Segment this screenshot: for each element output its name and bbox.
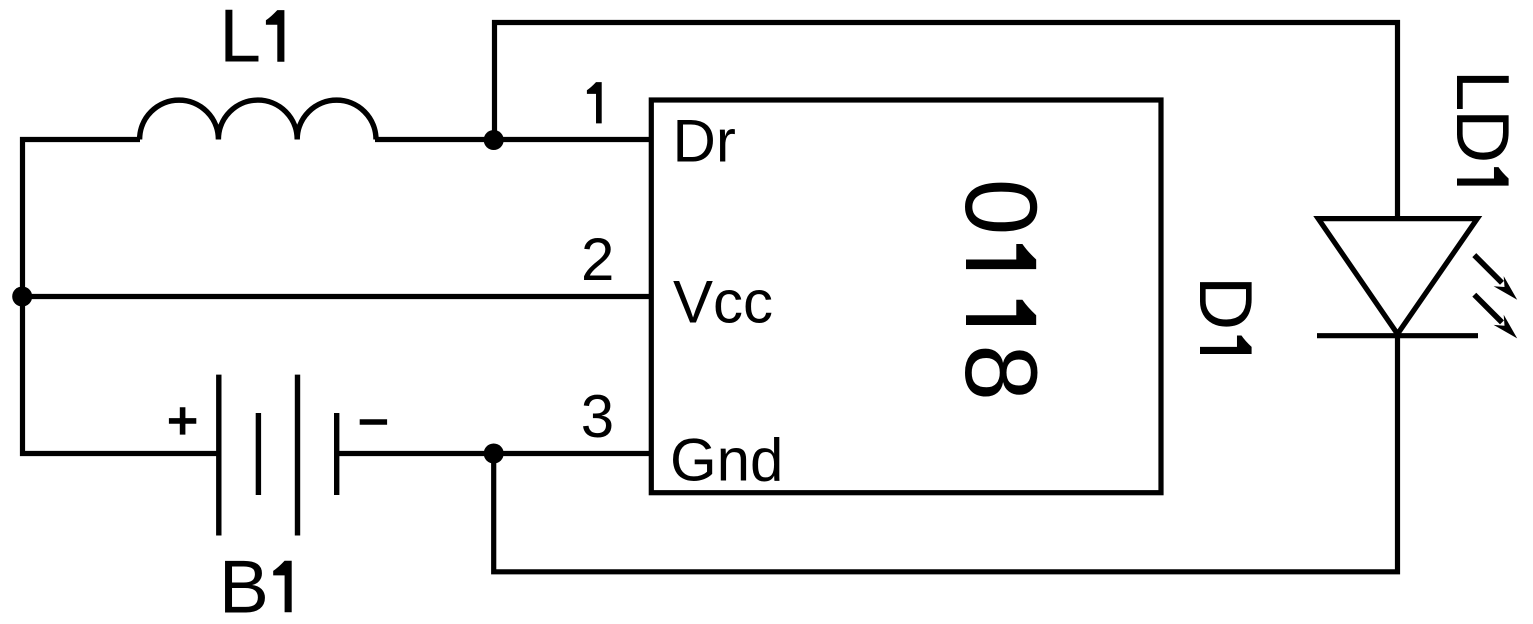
svg-text:D: D [1184, 276, 1268, 330]
svg-text:Vcc: Vcc [673, 268, 773, 335]
battery B1 plate: long positive plate [216, 375, 221, 536]
LED light arrow 2 [1474, 295, 1517, 339]
LED LD1 cathode bar [1317, 333, 1478, 338]
wire: inductor output to pin 1 (Dr) of U1 [375, 137, 652, 142]
minus sign at battery negative terminal [360, 419, 387, 425]
inductor L1 [140, 100, 376, 139]
plus sign at battery positive terminal [169, 407, 196, 434]
wire: top rail from node A up and across to LED anode [495, 23, 1398, 220]
svg-text:Gnd: Gnd [670, 427, 783, 494]
value label 0118 (rotated) [944, 179, 1058, 401]
svg-text:2: 2 [581, 226, 614, 293]
svg-text:L: L [219, 0, 261, 78]
IC U1 box (0118 driver) [651, 100, 1161, 493]
svg-text:Dr: Dr [673, 108, 736, 175]
label L1 [219, 0, 284, 78]
LED LD1 triangle (anode) [1318, 219, 1477, 334]
svg-text:D: D [1441, 109, 1525, 163]
LED light arrow 1 [1474, 255, 1517, 300]
wire: battery negative to pin 3 (Gnd) of U1 [337, 451, 652, 456]
svg-text:8: 8 [944, 344, 1058, 401]
battery B1 plate: short plate 1 [256, 413, 261, 495]
node C junction dot (battery negative / Gnd / bottom rail) [484, 444, 504, 464]
wire: left lead into inductor, left rail down to battery positive [23, 140, 218, 454]
svg-text:3: 3 [581, 383, 614, 450]
svg-text:L: L [1441, 70, 1525, 112]
wire: bottom rail from node C down and across to LED cathode [494, 335, 1398, 572]
node A junction dot (inductor / pin1 / top rail) [484, 130, 504, 150]
label LD1 (rotated) [1441, 70, 1525, 186]
label D1 (rotated, right of IC box) [1184, 276, 1268, 354]
battery B1 plate: short negative plate [334, 413, 339, 495]
battery B1 plate: long plate 2 [295, 375, 300, 536]
node B junction dot (left rail / Vcc) [12, 287, 32, 307]
pin number 1 [587, 82, 602, 123]
svg-text:0: 0 [944, 179, 1058, 236]
label B1 [219, 544, 292, 624]
svg-text:B: B [219, 544, 269, 624]
wire: Vcc rail from left rail to pin 2 of U1 [23, 294, 652, 299]
